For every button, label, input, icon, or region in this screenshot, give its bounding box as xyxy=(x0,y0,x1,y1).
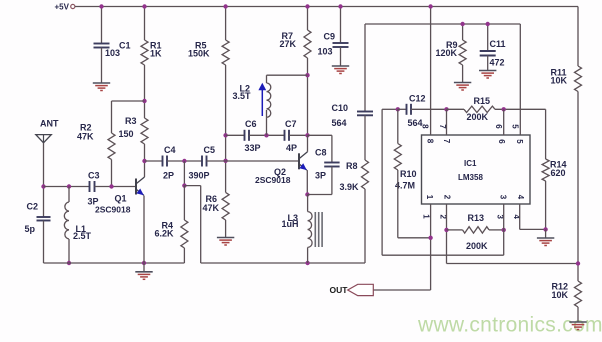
wire Q2 emitter xyxy=(306,170,308,194)
svg-text:C7: C7 xyxy=(285,119,297,129)
tuning arrow of L2 xyxy=(261,89,263,116)
svg-text:200K: 200K xyxy=(466,241,488,251)
wire right rail upper segment to R11 xyxy=(577,7,579,67)
svg-text:5p: 5p xyxy=(25,224,36,234)
wire R8 bottom lead xyxy=(364,189,366,263)
wire C11 top lead xyxy=(487,24,489,51)
junction C4-C5 midnode xyxy=(182,159,186,163)
junction ANT-C2-C3 node xyxy=(41,184,45,188)
junction rail-R7 xyxy=(305,4,309,8)
svg-text:OUT: OUT xyxy=(330,285,349,295)
wire C8 bottom to emitter node xyxy=(331,167,333,195)
junction pin6-R15-R14 xyxy=(502,107,506,111)
capacitor C1 xyxy=(94,43,110,45)
junction L2 top wire-R7 line xyxy=(305,73,309,77)
transistor Q2 xyxy=(298,153,300,169)
svg-text:C5: C5 xyxy=(204,145,216,155)
wire collector node to C4 xyxy=(145,160,163,162)
wire R2 top connector xyxy=(112,100,145,102)
wire midnode jog right and down xyxy=(184,185,200,187)
capacitor C10 xyxy=(357,111,373,113)
junction C7-R7-Q2 collector xyxy=(305,133,309,137)
svg-text:472: 472 xyxy=(490,57,505,67)
svg-text:1: 1 xyxy=(425,195,434,200)
junction rail-R5 xyxy=(223,4,227,8)
wire pin 4 to ground xyxy=(519,204,521,229)
junction Q1 emitter-ground bus xyxy=(142,261,146,265)
svg-text:R8: R8 xyxy=(346,161,358,171)
wire C2 top lead xyxy=(43,187,45,218)
svg-text:IC1: IC1 xyxy=(464,159,477,168)
wire Q2 collector xyxy=(307,135,309,152)
resistor R11 xyxy=(575,66,582,92)
svg-text:5: 5 xyxy=(515,139,524,144)
capacitor C5 xyxy=(201,156,203,167)
resistor R4 xyxy=(183,186,185,220)
svg-text:564: 564 xyxy=(332,118,347,128)
wire C12 to pin 7 xyxy=(411,108,447,110)
svg-text:C11: C11 xyxy=(490,39,506,49)
junction R6-base wire xyxy=(223,159,227,163)
svg-text:564: 564 xyxy=(408,118,423,128)
wire pin 3 line down xyxy=(503,204,505,255)
ground on bottom bus xyxy=(143,263,145,272)
wire C1 bottom lead xyxy=(101,48,103,84)
antenna ANT xyxy=(36,135,52,143)
wire pin 1 line down xyxy=(430,204,432,290)
junction Q1 collector-R3-C4 xyxy=(142,159,146,163)
wire R6 bottom lead xyxy=(225,220,227,238)
svg-text:6: 6 xyxy=(494,124,503,129)
junction rail-pin8 xyxy=(428,4,432,8)
transistor Q1 xyxy=(135,179,137,195)
wire collector node to C8 top xyxy=(308,134,332,136)
wire L3 bottom lead xyxy=(307,247,309,263)
wire to C12 left plate xyxy=(398,108,407,110)
wire R2 bottom lead xyxy=(111,160,113,187)
junction pin5 wire-R9 xyxy=(460,22,464,26)
wire C9 top lead xyxy=(340,7,342,44)
svg-text:27K: 27K xyxy=(280,39,297,49)
resistor R15 xyxy=(447,108,465,110)
resistor R14 xyxy=(545,109,547,159)
op-amp IC1 LM358 body xyxy=(422,135,531,204)
wire pin 6 stub xyxy=(503,109,505,135)
capacitor C9 xyxy=(333,42,349,44)
svg-text:3.9K: 3.9K xyxy=(340,182,360,192)
junction L3 bottom xyxy=(305,261,309,265)
svg-text:2: 2 xyxy=(442,195,451,200)
svg-text:C9: C9 xyxy=(324,32,336,42)
port OUT xyxy=(348,284,374,295)
junction pin1-R10 xyxy=(428,236,432,240)
svg-text:3: 3 xyxy=(498,195,507,200)
ground below R6 xyxy=(217,237,234,239)
wire R9 bottom lead xyxy=(462,65,464,83)
capacitor C3 xyxy=(89,181,91,192)
junction pin7-C12-R15 xyxy=(444,107,448,111)
wire R3 bottom lead xyxy=(144,144,146,161)
svg-text:1uH: 1uH xyxy=(282,219,299,229)
svg-text:C10: C10 xyxy=(332,103,349,113)
svg-text:2P: 2P xyxy=(163,171,174,181)
svg-text:47K: 47K xyxy=(203,203,220,213)
wire OUT net xyxy=(373,289,430,291)
junction rail-R1 xyxy=(142,4,146,8)
wire pin3 riser top corner xyxy=(382,108,398,110)
wire midnode down xyxy=(183,161,185,186)
capacitor C6 xyxy=(244,130,246,141)
svg-text:8: 8 xyxy=(425,139,434,144)
junction pin3-R13 xyxy=(502,228,506,232)
wire pin 2 line down xyxy=(446,204,448,264)
svg-text:2SC9018: 2SC9018 xyxy=(95,205,131,215)
capacitor C2 xyxy=(37,216,51,218)
junction rail-C9 xyxy=(338,4,342,8)
svg-text:10K: 10K xyxy=(552,290,569,300)
junction R10 top-C12 xyxy=(396,107,400,111)
junction L2 bottom xyxy=(264,133,268,137)
svg-text:620: 620 xyxy=(551,168,566,178)
junction R2-base wire xyxy=(109,184,113,188)
junction pin5 wire-C11 xyxy=(486,22,490,26)
svg-text:R10: R10 xyxy=(400,169,417,179)
junction pin4-R14 ground node xyxy=(543,227,547,231)
wire right rail middle segment R11 to R12 node xyxy=(577,92,579,264)
wire R7 to C7 node xyxy=(307,58,309,135)
resistor R10 xyxy=(397,109,399,143)
junction R5-C6 wire xyxy=(223,133,227,137)
svg-text:47K: 47K xyxy=(77,131,94,141)
svg-text:C6: C6 xyxy=(245,119,257,129)
wire pin 5 stub xyxy=(519,24,521,135)
capacitor C12 xyxy=(406,104,408,115)
svg-text:C1: C1 xyxy=(119,40,131,50)
svg-text:6.2K: 6.2K xyxy=(155,228,175,238)
wire R14 bottom lead xyxy=(545,181,547,229)
wire C4 to C5 xyxy=(167,160,202,162)
svg-text:R13: R13 xyxy=(468,213,485,223)
wire R9 top lead xyxy=(462,24,464,40)
resistor R3 xyxy=(141,118,148,144)
resistor R5 xyxy=(222,40,229,65)
svg-text:2SC9018: 2SC9018 xyxy=(255,175,291,185)
ground below C1 xyxy=(93,82,110,84)
svg-text:R15: R15 xyxy=(474,96,491,106)
junction Q2 emitter-C8-L3 xyxy=(305,192,309,196)
capacitor C11 xyxy=(480,50,496,52)
wire C10 top lead xyxy=(364,24,366,112)
wire pin 3 loop to C12 node xyxy=(382,254,504,256)
wire R5 node to C6 xyxy=(226,134,245,136)
svg-text:4P: 4P xyxy=(286,143,297,153)
svg-text:ANT: ANT xyxy=(40,119,59,129)
wire pin 8 to +5V rail xyxy=(430,7,432,136)
wire L1 bottom lead xyxy=(68,239,70,263)
svg-text:1K: 1K xyxy=(150,48,162,58)
wire C6 to C7 xyxy=(249,134,285,136)
svg-text:103: 103 xyxy=(318,46,333,56)
svg-text:10K: 10K xyxy=(551,75,568,85)
wire R4 bottom lead xyxy=(183,248,185,263)
wire R5 to C6 node xyxy=(225,65,227,161)
resistor R6 xyxy=(222,192,229,220)
resistor R1 xyxy=(141,40,148,65)
wire R10 bottom lead xyxy=(397,170,399,238)
svg-text:4: 4 xyxy=(516,195,525,200)
core lines of L3 xyxy=(314,212,316,247)
capacitor C4 xyxy=(162,156,164,167)
wire bottom bus middle segment xyxy=(201,262,365,264)
wire C11 bottom lead xyxy=(487,56,489,71)
wire L1 top lead xyxy=(68,187,70,203)
ground below pin 4 node xyxy=(545,229,547,238)
wire R12 to ground xyxy=(577,307,579,322)
capacitor C7 xyxy=(284,130,286,141)
svg-text:C8: C8 xyxy=(315,148,327,158)
power port circle +5V xyxy=(71,4,75,8)
svg-text:1: 1 xyxy=(421,214,430,219)
wire +5V top rail xyxy=(75,6,578,8)
svg-text:390P: 390P xyxy=(189,171,210,181)
ground below R9 xyxy=(454,82,471,84)
svg-text:5: 5 xyxy=(511,124,520,129)
svg-text:200K: 200K xyxy=(467,112,489,122)
wire bottom ground bus left segment xyxy=(44,262,185,264)
wire pin5 net horizontal xyxy=(365,23,520,25)
wire R5 top lead xyxy=(225,7,227,41)
junction right rail-R12-pin2 wire xyxy=(576,261,580,265)
svg-text:C12: C12 xyxy=(409,93,426,103)
resistor R2 xyxy=(108,133,115,160)
ground below C11 xyxy=(479,70,496,72)
svg-text:C4: C4 xyxy=(164,145,176,155)
svg-text:3P: 3P xyxy=(315,170,326,180)
wire C1 top lead xyxy=(101,7,103,44)
inductor L3 xyxy=(307,195,309,212)
wire Q1 collector xyxy=(144,161,146,177)
wire R7 top lead xyxy=(307,7,309,31)
resistor R12 xyxy=(577,264,579,282)
junction pin2-R13 xyxy=(444,228,448,232)
resistor R8 xyxy=(362,160,369,189)
inductor L2 xyxy=(266,117,268,135)
resistor R7 xyxy=(304,30,311,58)
wire R6 top lead xyxy=(225,161,227,193)
wire pin 7 stub xyxy=(446,109,448,135)
wire pin 2 to right rail xyxy=(447,263,579,265)
svg-text:+5V: +5V xyxy=(55,2,70,11)
svg-text:3.5T: 3.5T xyxy=(233,91,252,101)
svg-text:6: 6 xyxy=(497,139,506,144)
wire L2 top to R7 line xyxy=(266,110,268,117)
svg-text:R3: R3 xyxy=(125,116,137,126)
svg-text:7: 7 xyxy=(442,139,451,144)
svg-text:150: 150 xyxy=(119,129,134,139)
capacitor C8 xyxy=(324,162,339,164)
wire Q1 emitter xyxy=(143,196,145,264)
svg-text:LM358: LM358 xyxy=(458,173,483,182)
junction L1 top xyxy=(67,184,71,188)
svg-text:103: 103 xyxy=(105,48,120,58)
wire C9 bottom lead xyxy=(340,47,342,66)
svg-text:150K: 150K xyxy=(188,48,210,58)
svg-text:C3: C3 xyxy=(88,170,100,180)
wire C5 to Q2 base xyxy=(207,160,299,162)
wire antenna lead xyxy=(43,143,45,187)
inductor L1 xyxy=(64,202,69,239)
ground below R12 xyxy=(569,321,586,323)
wire C7 to Q2 collector node xyxy=(289,134,308,136)
svg-text:7: 7 xyxy=(438,124,447,129)
junction R1-R2-R3 node xyxy=(142,99,146,103)
wire R15 right to R14 corner xyxy=(495,108,546,110)
ground below C9 xyxy=(332,65,349,67)
wire R1 top lead xyxy=(144,7,146,41)
svg-text:Q1: Q1 xyxy=(115,194,127,204)
svg-text:120K: 120K xyxy=(436,48,458,58)
wire ANT node to C3 xyxy=(44,186,90,188)
wire C3 to Q1 base xyxy=(95,186,136,188)
wire R1 to R3 xyxy=(144,65,146,118)
junction L1 bottom xyxy=(67,261,71,265)
wire C10 to R8 xyxy=(364,115,366,160)
svg-text:C2: C2 xyxy=(27,202,39,212)
junction midnode-R4 top xyxy=(182,183,186,187)
resistor R9 xyxy=(459,40,466,65)
junction rail-C1 xyxy=(99,4,103,8)
resistor R13 xyxy=(447,229,463,231)
svg-text:33P: 33P xyxy=(245,143,261,153)
wire C2 bottom lead xyxy=(43,221,45,264)
svg-text:2.5T: 2.5T xyxy=(73,231,92,241)
